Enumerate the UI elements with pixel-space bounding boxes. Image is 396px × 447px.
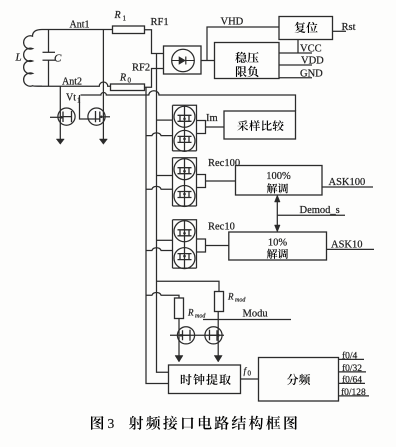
resistor Rmod1 bbox=[175, 298, 184, 319]
wire VCC to reset bbox=[297, 40, 299, 54]
block reset bbox=[279, 17, 333, 40]
wire VHD bbox=[207, 27, 279, 61]
label L bbox=[15, 52, 22, 64]
wire f0/32 output bbox=[339, 371, 367, 373]
caption figure 3 bbox=[91, 416, 297, 431]
label Ant2 bbox=[62, 77, 82, 88]
wire left rail to Rmod1 with hop bbox=[146, 293, 179, 298]
svg-text:Vt: Vt bbox=[66, 93, 76, 104]
label f0 bbox=[244, 366, 252, 378]
block clock extraction bbox=[169, 365, 241, 394]
svg-text:VDD: VDD bbox=[301, 56, 324, 67]
label f0/4 bbox=[342, 350, 358, 361]
label ASK100 bbox=[329, 177, 366, 188]
wire ASK10 output bbox=[327, 248, 375, 250]
wire pair Rec100 output bbox=[206, 180, 236, 182]
wire Rst output bbox=[333, 30, 347, 32]
block regulator bbox=[215, 43, 280, 79]
wire VCC bbox=[279, 52, 312, 54]
svg-text:mod: mod bbox=[235, 298, 246, 304]
wire gate bus of modulation transistors bbox=[170, 334, 224, 336]
svg-text:100%: 100% bbox=[266, 171, 291, 182]
resistor Rmod2 bbox=[215, 292, 224, 312]
block 10% demodulator bbox=[229, 232, 327, 260]
svg-text:10%: 10% bbox=[268, 238, 288, 249]
transistor Q4 (modulation) bbox=[205, 312, 222, 357]
wire Ant1 rail bbox=[42, 29, 113, 31]
label f0/128 bbox=[341, 387, 366, 398]
transistor Q1 (clamp on Ant2) bbox=[50, 86, 75, 139]
svg-text:R: R bbox=[114, 10, 121, 21]
wire pair Rec10 output bbox=[206, 245, 229, 247]
svg-text:Im: Im bbox=[206, 113, 218, 124]
svg-text:Ant1: Ant1 bbox=[70, 20, 90, 31]
label Rec100 bbox=[208, 158, 240, 169]
label Rmod1 bbox=[187, 308, 206, 320]
svg-text:RF2: RF2 bbox=[132, 63, 150, 74]
svg-text:R: R bbox=[187, 308, 194, 318]
wire left rail to pair Im with hop bbox=[146, 133, 173, 136]
svg-text:Demod_s: Demod_s bbox=[300, 205, 340, 216]
label R1 bbox=[114, 10, 127, 23]
label Demod_s bbox=[300, 205, 340, 216]
label VDD bbox=[301, 56, 324, 67]
svg-text:RF1: RF1 bbox=[151, 17, 169, 28]
svg-text:C: C bbox=[54, 53, 62, 65]
label RF1 bbox=[151, 17, 169, 28]
wire left rail to pair Rec100 with hop bbox=[146, 186, 173, 189]
label RF2 bbox=[132, 63, 150, 74]
svg-text:Rst: Rst bbox=[342, 22, 356, 33]
wire f0/128 output bbox=[339, 395, 370, 397]
transistor Q2 (clamp on Ant1) bbox=[88, 108, 110, 125]
wire Modu line bbox=[203, 319, 291, 321]
label VCC bbox=[300, 44, 322, 55]
transistor pair Rec100 bbox=[173, 158, 206, 207]
wire right rail to pair Rec10 bbox=[157, 239, 173, 241]
wire Vt1 gate drop bbox=[80, 95, 94, 119]
block divider bbox=[259, 358, 339, 402]
wire GND bbox=[279, 77, 312, 79]
wire Ant1 riser to clamp Q2 with hop over Ant2 bbox=[102, 30, 104, 140]
svg-text:ASK10: ASK10 bbox=[331, 240, 363, 251]
label Ant1 bbox=[70, 20, 90, 31]
wire right rail RF1 bus bbox=[157, 54, 169, 373]
svg-text:0: 0 bbox=[128, 77, 132, 85]
wire RF2 from R0 to rectifier bbox=[145, 69, 164, 88]
capacitor C bbox=[43, 30, 56, 87]
transistor pair Rec10 bbox=[173, 220, 206, 269]
wire RF1 from R1 to rectifier bbox=[145, 30, 164, 54]
block 100% demodulator bbox=[236, 166, 323, 196]
wire left rail RF2 bus bbox=[146, 87, 169, 383]
svg-text:f0/128: f0/128 bbox=[341, 387, 366, 398]
svg-text:Rec10: Rec10 bbox=[208, 222, 235, 233]
transistor pair Im bbox=[173, 105, 206, 151]
svg-text:Ant2: Ant2 bbox=[62, 77, 82, 88]
resistor R1 bbox=[113, 26, 145, 34]
arrow Q3 to clock block bbox=[175, 356, 183, 363]
arrow Q4 to clock block bbox=[214, 356, 222, 363]
wire Vt1 gate line to sample-compare block bbox=[81, 91, 296, 111]
rectifier U1 (diode block) bbox=[164, 46, 202, 74]
wire f0/64 output bbox=[339, 382, 366, 384]
wire Demod_s double arrow bbox=[275, 195, 346, 232]
svg-text:ASK100: ASK100 bbox=[329, 177, 366, 188]
svg-text:L: L bbox=[15, 52, 22, 64]
label f0/64 bbox=[342, 374, 362, 385]
block sample-compare bbox=[224, 111, 296, 139]
wire left rail to pair Rec10 with hop bbox=[146, 248, 173, 251]
wire rectifier output to regulator bbox=[201, 60, 215, 62]
svg-text:f0/64: f0/64 bbox=[342, 374, 362, 385]
label Im bbox=[206, 113, 218, 124]
svg-text:mod: mod bbox=[195, 314, 206, 320]
svg-text:R: R bbox=[119, 73, 126, 84]
svg-text:R: R bbox=[227, 292, 234, 302]
label Rmod2 bbox=[227, 292, 246, 304]
label ASK10 bbox=[331, 240, 363, 251]
label Vt1 bbox=[66, 93, 81, 105]
svg-text:GND: GND bbox=[300, 68, 323, 79]
label C bbox=[54, 53, 62, 65]
wire right rail to pair Im bbox=[157, 119, 173, 121]
svg-text:f0/4: f0/4 bbox=[342, 350, 358, 361]
wire f0/4 output bbox=[339, 358, 365, 360]
svg-text:1: 1 bbox=[123, 15, 127, 23]
svg-text:3: 3 bbox=[108, 416, 115, 431]
wire ASK100 output bbox=[322, 186, 373, 188]
ground arrow Q1 bbox=[56, 139, 64, 144]
svg-text:f0/32: f0/32 bbox=[342, 363, 362, 374]
ground arrow Q2 bbox=[99, 139, 107, 144]
wire Ant2 rail with hop over Ant1 riser bbox=[42, 82, 111, 86]
label Modu bbox=[243, 309, 269, 320]
wire VDD bbox=[279, 64, 312, 66]
inductor L (antenna coil) bbox=[24, 30, 42, 87]
label VHD bbox=[221, 17, 244, 28]
svg-text:0: 0 bbox=[248, 370, 252, 378]
svg-text:Modu: Modu bbox=[243, 309, 269, 320]
label Rec10 bbox=[208, 222, 235, 233]
label GND bbox=[300, 68, 323, 79]
wire right rail to pair Rec100 bbox=[157, 175, 173, 177]
svg-text:VHD: VHD bbox=[221, 17, 244, 28]
wire pair Im output bbox=[206, 126, 225, 128]
label Rst bbox=[342, 22, 356, 33]
svg-text:VCC: VCC bbox=[300, 44, 322, 55]
resistor R0 bbox=[111, 84, 145, 91]
label R0 bbox=[119, 73, 132, 85]
transistor Q3 (modulation) bbox=[177, 319, 194, 357]
wire f0 bbox=[241, 378, 259, 380]
wire right rail to Rmod2 bbox=[157, 281, 220, 291]
label f0/32 bbox=[342, 363, 362, 374]
